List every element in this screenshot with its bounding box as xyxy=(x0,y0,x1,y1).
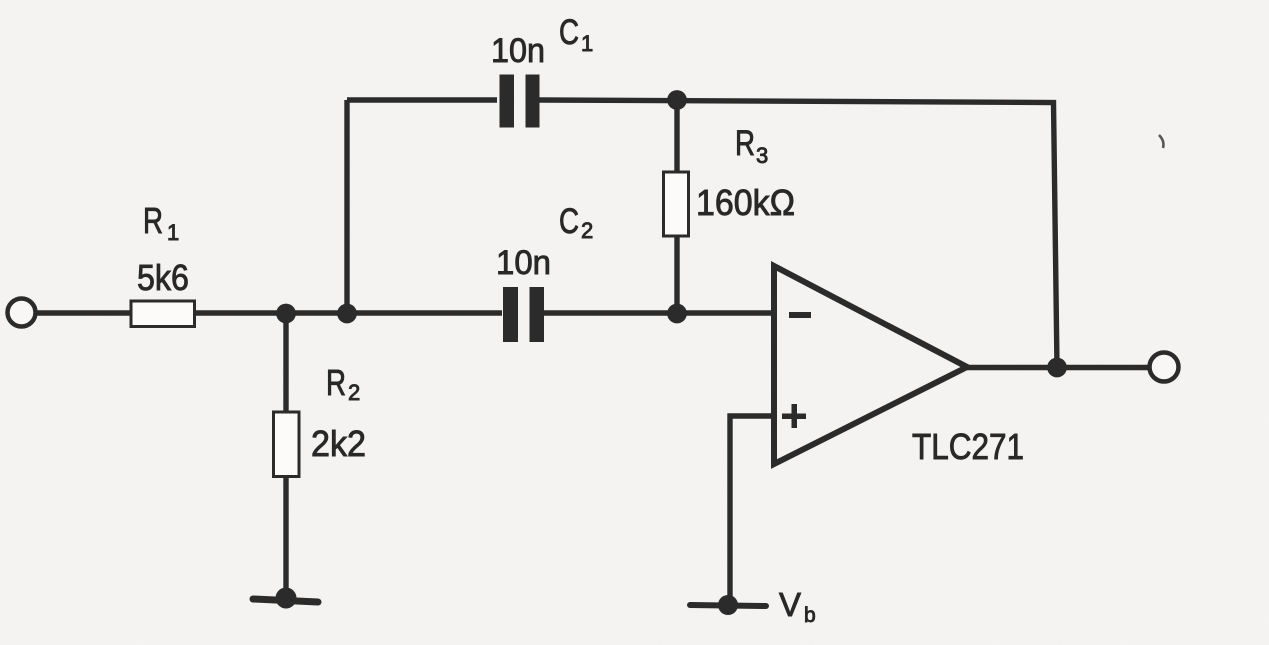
svg-text:5k6: 5k6 xyxy=(137,257,189,298)
svg-text:10n: 10n xyxy=(491,32,545,70)
svg-text:2: 2 xyxy=(581,218,593,243)
svg-text:1: 1 xyxy=(167,220,179,245)
svg-text:1: 1 xyxy=(581,31,593,56)
svg-text:C: C xyxy=(559,202,579,241)
svg-text:R: R xyxy=(326,362,346,403)
svg-text:10n: 10n xyxy=(496,244,551,282)
svg-text:b: b xyxy=(804,604,816,627)
svg-text:C: C xyxy=(559,13,579,52)
svg-text:2k2: 2k2 xyxy=(311,423,366,464)
svg-text:V: V xyxy=(779,586,801,623)
svg-text:3: 3 xyxy=(756,143,768,168)
svg-text:TLC271: TLC271 xyxy=(912,426,1024,467)
svg-text:160kΩ: 160kΩ xyxy=(696,182,795,223)
svg-text:R: R xyxy=(143,200,163,241)
svg-text:R: R xyxy=(735,124,755,163)
svg-text:2: 2 xyxy=(348,380,360,405)
